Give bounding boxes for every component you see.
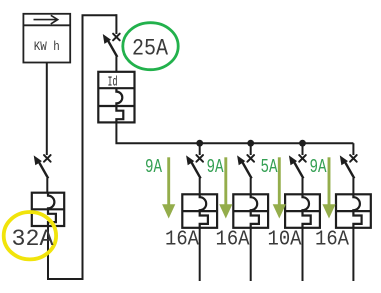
wire 32A block down, bottom run, riser up, top run to 25A	[48, 15, 116, 279]
node dot 2	[247, 140, 254, 147]
branch breaker D4 (16A) switch contact X	[350, 155, 357, 162]
current arrow I3 (5A)	[261, 156, 286, 219]
svg-text:16A: 16A	[315, 227, 349, 251]
breaker Q1 (32A) block	[32, 193, 64, 226]
branch breaker D3 (10A) block	[285, 194, 320, 228]
svg-text:10A: 10A	[268, 227, 302, 251]
branch breaker D1 (16A) switch blade triangle	[186, 155, 194, 165]
svg-text:25A: 25A	[132, 36, 169, 63]
wire bus to branch breaker D4 (16A)	[352, 143, 354, 155]
branch breaker D3 (10A) thermal jog	[303, 211, 311, 228]
branch breaker D4 (16A) switch blade	[345, 162, 354, 178]
breaker Q0 (25A) switch blade triangle	[103, 34, 111, 44]
svg-text:9A: 9A	[207, 156, 224, 178]
breaker Q0 (25A) switch blade	[108, 41, 117, 57]
wire switch to 32A block	[46, 178, 48, 194]
node dot 3	[299, 140, 306, 147]
differential Id block	[98, 72, 134, 123]
wire meter to 32A switch	[46, 63, 48, 156]
breaker Q1 (32A) switch blade	[39, 162, 48, 178]
wire switch to branch breaker D4 (16A) block	[352, 178, 354, 195]
branch breaker D2 (16A) thermal jog	[251, 211, 259, 228]
Id magnetic arc	[116, 88, 122, 106]
svg-text:9A: 9A	[310, 156, 327, 178]
branch breaker D3 (10A) switch contact X	[299, 155, 306, 162]
svg-text:32A: 32A	[12, 226, 55, 253]
wire Id block to distribution bus	[116, 122, 353, 143]
svg-text:16A: 16A	[216, 227, 250, 251]
wire branch breaker D1 (16A) output	[199, 228, 201, 281]
branch breaker D4 (16A) thermal jog	[353, 211, 361, 228]
green highlight circle around 25A	[123, 23, 178, 70]
meter arrow	[34, 15, 58, 24]
svg-text:KW h: KW h	[34, 40, 60, 54]
Id thermal jog	[116, 106, 123, 122]
node dot 1	[196, 140, 203, 147]
svg-text:9A: 9A	[145, 156, 162, 178]
breaker Q1 (32A) thermal jog	[48, 209, 56, 226]
branch breaker D2 (16A) switch blade	[243, 162, 252, 178]
branch breaker D2 (16A) block	[233, 194, 268, 228]
breaker Q1 (32A) switch contact X	[44, 155, 51, 162]
svg-text:16A: 16A	[165, 227, 199, 251]
branch breaker D1 (16A) switch blade	[192, 162, 201, 178]
wire feed down to 25A switch	[115, 14, 117, 34]
wire switch to Id block	[115, 57, 117, 73]
branch breaker D4 (16A) switch blade triangle	[340, 155, 348, 165]
wire bus to branch breaker D3 (10A)	[302, 143, 304, 155]
wire branch breaker D4 (16A) output	[352, 228, 354, 281]
wire switch to branch breaker D2 (16A) block	[250, 178, 252, 195]
wire branch breaker D2 (16A) output	[250, 228, 252, 281]
kWh meter	[23, 14, 70, 63]
wire bus to branch breaker D2 (16A)	[250, 143, 252, 155]
wire switch to branch breaker D1 (16A) block	[199, 178, 201, 195]
breaker Q1 (32A) magnetic arc	[48, 193, 54, 210]
yellow highlight circle around 32A	[4, 212, 56, 259]
current arrow I1 (9A)	[145, 156, 175, 219]
branch breaker D1 (16A) magnetic arc	[200, 194, 207, 211]
breaker Q1 (32A) switch blade triangle	[34, 155, 42, 165]
branch breaker D2 (16A) switch contact X	[247, 155, 254, 162]
branch breaker D4 (16A) block	[336, 194, 371, 228]
branch breaker D2 (16A) magnetic arc	[251, 194, 258, 211]
wire branch breaker D3 (10A) output	[302, 228, 304, 281]
wire switch to branch breaker D3 (10A) block	[302, 178, 304, 195]
breaker Q0 (25A) switch contact X	[113, 34, 120, 41]
wire bus to branch breaker D1 (16A)	[199, 143, 201, 155]
svg-text:5A: 5A	[261, 156, 278, 178]
branch breaker D3 (10A) magnetic arc	[303, 194, 310, 211]
branch breaker D4 (16A) magnetic arc	[353, 194, 360, 211]
branch breaker D1 (16A) block	[182, 194, 217, 228]
current arrow I4 (9A)	[310, 156, 336, 219]
branch breaker D3 (10A) switch blade triangle	[289, 155, 297, 165]
branch breaker D1 (16A) thermal jog	[200, 211, 208, 228]
current arrow I2 (9A)	[207, 156, 233, 219]
svg-text:Id: Id	[108, 76, 118, 91]
branch breaker D1 (16A) switch contact X	[196, 155, 203, 162]
branch breaker D3 (10A) switch blade	[294, 162, 303, 178]
branch breaker D2 (16A) switch blade triangle	[237, 155, 245, 165]
